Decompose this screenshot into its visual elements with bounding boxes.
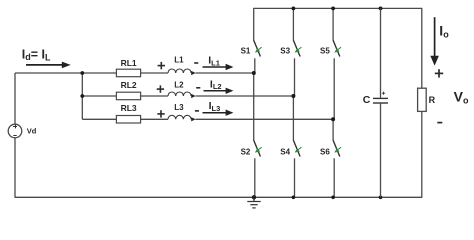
svg-text:RL1: RL1 <box>121 58 137 68</box>
svg-text:S5: S5 <box>320 46 330 55</box>
svg-text:R: R <box>429 95 436 105</box>
svg-text:S3: S3 <box>280 46 290 55</box>
svg-text:Vd: Vd <box>27 127 37 136</box>
svg-text:S4: S4 <box>280 147 290 156</box>
svg-text:S6: S6 <box>320 147 330 156</box>
svg-text:L3: L3 <box>174 103 184 112</box>
svg-text:S1: S1 <box>241 46 251 55</box>
svg-text:RL3: RL3 <box>121 103 137 113</box>
svg-text:IL2: IL2 <box>210 78 222 91</box>
svg-text:Io: Io <box>439 23 449 40</box>
svg-text:RL2: RL2 <box>121 80 137 90</box>
svg-text:C: C <box>363 94 371 106</box>
svg-text:L1: L1 <box>174 56 184 65</box>
svg-text:IL1: IL1 <box>208 55 220 68</box>
svg-text:L2: L2 <box>174 81 184 90</box>
svg-text:S2: S2 <box>241 147 251 156</box>
svg-text:Vo: Vo <box>454 89 469 106</box>
svg-text:Id= IL: Id= IL <box>22 48 51 63</box>
svg-text:IL3: IL3 <box>209 100 221 113</box>
